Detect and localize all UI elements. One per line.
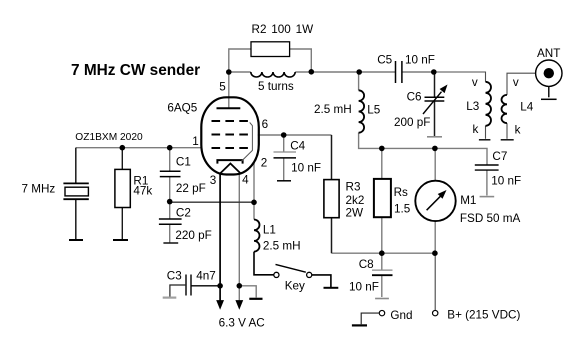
tube grid dashes <box>212 121 249 148</box>
capacitor C2 <box>159 219 182 224</box>
svg-text:200 pF: 200 pF <box>394 116 430 129</box>
heater arrow pin 3 <box>216 300 224 310</box>
wire top rail <box>229 71 434 73</box>
junction C3 heater pin 3 <box>217 283 223 289</box>
ground C8 <box>375 298 389 300</box>
svg-text:2k2: 2k2 <box>346 194 365 207</box>
svg-text:10 nF: 10 nF <box>405 53 435 66</box>
wire feedback C1C2 junction to cathode <box>170 201 254 203</box>
svg-text:1: 1 <box>192 135 199 148</box>
wire C7 bottom lead <box>486 170 488 195</box>
ground C6 <box>427 136 442 138</box>
variable capacitor C6 <box>425 97 445 101</box>
svg-text:v: v <box>513 76 519 89</box>
ground R1 <box>113 239 128 241</box>
wire plate pin 5 lead <box>228 72 230 108</box>
junction pin 5 plate node <box>226 69 232 75</box>
wire R3 bottom lead <box>331 218 333 254</box>
ground C2 <box>163 242 178 244</box>
svg-text:L4: L4 <box>520 100 534 113</box>
svg-text:22 pF: 22 pF <box>176 182 206 195</box>
wire left rail from crystal to pin 1 <box>76 147 202 149</box>
svg-text:6: 6 <box>262 118 269 131</box>
junction C1-C2 node <box>167 199 173 205</box>
svg-text:C2: C2 <box>176 207 191 220</box>
ground L4 <box>501 139 514 141</box>
junction B+ node <box>432 250 438 256</box>
wire L4 bottom lead <box>506 123 508 139</box>
svg-text:2.5 mH: 2.5 mH <box>314 103 352 116</box>
wire pin 4 ground elbow <box>239 286 256 298</box>
wire C6 leads <box>434 72 436 137</box>
wire L3 bottom lead <box>485 126 487 139</box>
key switch <box>274 272 279 277</box>
svg-text:Key: Key <box>285 280 305 293</box>
capacitor C4 <box>274 152 297 158</box>
svg-text:v: v <box>472 76 478 89</box>
svg-text:2W: 2W <box>346 206 364 219</box>
tube U1 6AQ5 envelope <box>201 97 258 174</box>
resistor Rs <box>374 179 391 217</box>
junction R2 right node <box>309 69 315 75</box>
junction Rs top node <box>379 146 385 152</box>
svg-text:10 nF: 10 nF <box>291 162 321 175</box>
capacitor C8 <box>372 270 393 275</box>
junction cathode node <box>251 200 257 206</box>
svg-text:Rs: Rs <box>394 186 408 199</box>
ground pin 4 <box>249 298 262 300</box>
ground C4 <box>277 180 291 182</box>
svg-text:2.5 mH: 2.5 mH <box>263 240 301 253</box>
capacitor C3 <box>186 275 191 296</box>
capacitor C7 <box>475 165 499 170</box>
wire pin 6 to R3 <box>258 134 332 136</box>
svg-text:FSD 50 mA: FSD 50 mA <box>460 212 521 225</box>
wire Rs leads <box>381 148 383 253</box>
wire R3 top lead <box>331 135 333 180</box>
svg-text:k: k <box>515 124 521 137</box>
ground key <box>324 287 339 289</box>
inductor 5 turns coil <box>251 72 295 77</box>
wire L5 bottom and middle rail <box>359 133 487 165</box>
antenna connector <box>536 60 562 86</box>
svg-text:47k: 47k <box>133 184 152 197</box>
wire R1 leads <box>121 148 123 240</box>
wire C1 C2 leads <box>169 148 171 243</box>
C6 arrow <box>423 92 442 114</box>
inductor L5 <box>359 90 365 132</box>
svg-text:C4: C4 <box>290 139 305 152</box>
inductor L1 <box>254 220 260 252</box>
ground L3 <box>479 139 491 141</box>
tube internal thin link <box>241 122 252 161</box>
wire L4 top lead <box>507 73 548 95</box>
svg-text:3: 3 <box>210 174 217 187</box>
heater pin 3 wire <box>219 175 221 301</box>
svg-text:7 MHz CW sender: 7 MHz CW sender <box>71 62 200 79</box>
junction meter top node <box>432 146 438 152</box>
svg-text:R2 100 1W: R2 100 1W <box>252 23 314 36</box>
junction C8 top node <box>379 250 385 256</box>
wire crystal top lead <box>75 148 77 184</box>
svg-text:Gnd: Gnd <box>390 309 412 322</box>
terminal B+ <box>433 310 438 315</box>
svg-text:L5: L5 <box>367 104 381 117</box>
svg-text:5 turns: 5 turns <box>258 80 294 93</box>
wire meter leads <box>434 148 436 253</box>
junction R1 top <box>120 145 126 151</box>
svg-text:7 MHz: 7 MHz <box>22 182 56 195</box>
wire B+ lead <box>434 253 436 310</box>
junction L5-C5 node <box>356 69 362 75</box>
wire C4 leads <box>283 135 285 181</box>
svg-text:C5: C5 <box>377 53 392 66</box>
ground C7 <box>480 196 495 198</box>
junction C6 top node <box>431 69 437 75</box>
ground crystal <box>69 239 83 241</box>
tube cathode staple <box>217 160 242 164</box>
wire C6 dot to L3 top <box>434 72 486 82</box>
meter needle <box>427 196 441 210</box>
meter M1 <box>415 181 455 221</box>
wire cathode pin 2 down to L1 <box>253 162 255 220</box>
terminal Gnd <box>379 310 384 315</box>
svg-text:B+ (215 VDC): B+ (215 VDC) <box>447 309 520 322</box>
key lever <box>276 264 306 272</box>
svg-text:C6: C6 <box>407 91 422 104</box>
wire C3 left lead <box>170 285 186 297</box>
svg-text:5: 5 <box>219 81 226 94</box>
capacitor C1 <box>160 171 181 176</box>
junction C4 top node <box>281 132 287 138</box>
wire C8 leads <box>381 253 383 297</box>
resistor R3 <box>324 180 339 218</box>
svg-text:OZ1BXM 2020: OZ1BXM 2020 <box>75 132 143 143</box>
wire R2 left lead <box>229 49 251 72</box>
tube plate bar <box>217 107 241 109</box>
inductor L4 <box>502 95 508 123</box>
svg-text:C8: C8 <box>359 258 374 271</box>
crystal X1 7 MHz <box>63 183 88 199</box>
svg-text:10 nF: 10 nF <box>491 175 521 188</box>
svg-text:L1: L1 <box>263 223 276 236</box>
svg-text:6.3 V AC: 6.3 V AC <box>219 316 265 329</box>
inductor L3 <box>486 82 492 126</box>
svg-text:M1: M1 <box>460 194 476 207</box>
wire R2 right lead <box>290 49 312 72</box>
svg-text:1.5: 1.5 <box>394 202 411 215</box>
wire bottom rail <box>332 252 436 254</box>
svg-text:C3: C3 <box>167 270 182 283</box>
junction C1 top <box>167 145 173 151</box>
svg-text:220 pF: 220 pF <box>175 229 211 242</box>
junction heater pin 4 ground <box>237 283 243 289</box>
ground C3 <box>163 297 177 299</box>
wire heater pin 4 <box>238 174 240 301</box>
svg-text:C7: C7 <box>492 150 507 163</box>
wire L1 to key <box>254 252 274 275</box>
resistor R1 <box>115 169 130 207</box>
svg-text:10 nF: 10 nF <box>349 281 379 294</box>
svg-text:2: 2 <box>261 156 268 169</box>
wire key to ground <box>312 275 331 287</box>
heater arrow pin 4 <box>235 300 243 310</box>
svg-text:4: 4 <box>242 174 249 187</box>
svg-text:4n7: 4n7 <box>196 270 216 283</box>
svg-text:L3: L3 <box>466 100 479 113</box>
resistor R2 <box>251 42 290 57</box>
antenna ground stub <box>548 86 550 97</box>
svg-text:k: k <box>473 123 479 136</box>
svg-text:ANT: ANT <box>537 47 560 60</box>
svg-text:C1: C1 <box>176 155 191 168</box>
wire crystal bottom lead <box>75 199 77 240</box>
svg-text:6AQ5: 6AQ5 <box>167 102 197 115</box>
tube heater V <box>220 164 241 174</box>
svg-text:R3: R3 <box>346 181 361 194</box>
capacitor C5 <box>396 61 402 83</box>
wire C3 right lead <box>191 285 220 287</box>
wire L5 top lead <box>358 72 360 90</box>
wire C5 left lead <box>359 71 395 73</box>
